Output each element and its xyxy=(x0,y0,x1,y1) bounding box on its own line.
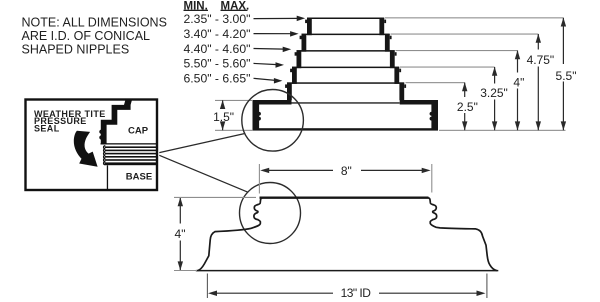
cone step 4 right wall xyxy=(394,67,401,84)
dimension 4.75 inch xyxy=(536,34,541,131)
svg-text:2.35" - 3.00": 2.35" - 3.00" xyxy=(184,12,251,26)
cone step 3 left wall xyxy=(295,50,302,68)
cone step 3 right wall xyxy=(390,50,397,68)
svg-text:ARE I.D. OF CONICAL: ARE I.D. OF CONICAL xyxy=(22,29,151,43)
svg-text:2.5": 2.5" xyxy=(457,100,478,114)
arrow row 3 xyxy=(254,47,292,53)
cone step 4 left wall xyxy=(290,67,297,84)
svg-text:4": 4" xyxy=(513,76,524,90)
svg-text:5.5": 5.5" xyxy=(556,69,577,83)
base left wall xyxy=(253,100,260,131)
dimension 13 inch ID extension right xyxy=(486,274,488,299)
extension line base top left xyxy=(215,100,253,101)
cone step 1 left wall xyxy=(305,18,312,36)
base right shoulder xyxy=(400,100,438,105)
svg-text:3.40" - 4.20": 3.40" - 4.20" xyxy=(184,27,251,41)
note text xyxy=(22,16,167,57)
lower profile bottom line xyxy=(196,270,499,272)
table header MIN xyxy=(184,0,209,12)
dimension 8 inch extension left xyxy=(258,164,260,194)
table header MAX xyxy=(221,0,250,12)
dimension 4 inch bottom extension xyxy=(174,270,197,272)
box curved arrow xyxy=(74,131,98,167)
cone step 5 right wall xyxy=(399,83,406,101)
lower profile left side xyxy=(198,198,263,271)
dimension 4 inch left xyxy=(178,197,183,270)
cone step 2 right wall xyxy=(385,34,392,52)
box seal ribs bottom line xyxy=(105,163,158,165)
base right wall xyxy=(431,100,438,131)
dimension 3.25 inch xyxy=(492,67,497,131)
leader line to upper circle xyxy=(159,134,244,153)
leader line to lower circle xyxy=(159,155,248,192)
lower detail circle xyxy=(240,183,301,244)
cone step 2 left wall xyxy=(300,34,307,52)
arrow row 2 xyxy=(254,31,299,36)
extension line base bottom left xyxy=(215,130,253,131)
detail box xyxy=(26,100,158,191)
arrow row 4 xyxy=(254,62,285,67)
box seal ribs left wavy edge xyxy=(104,146,106,165)
extension line step5 right xyxy=(406,82,465,83)
base left wall seal teeth xyxy=(259,112,261,121)
cone step 3 top line xyxy=(297,50,395,52)
base left shoulder xyxy=(253,100,292,105)
cone step 1 top line xyxy=(307,18,384,20)
base bottom line xyxy=(253,128,439,130)
svg-text:NOTE: ALL DIMENSIONS: NOTE: ALL DIMENSIONS xyxy=(22,16,167,30)
dimension 2.5 inch xyxy=(462,82,467,130)
box label weather tite pressure seal xyxy=(34,109,106,134)
arrow row 5 xyxy=(254,78,283,84)
svg-text:4.75": 4.75" xyxy=(527,53,555,67)
svg-text:6.50" - 6.65": 6.50" - 6.65" xyxy=(184,72,251,86)
svg-text:1.5": 1.5" xyxy=(213,110,234,124)
base top mid line xyxy=(292,102,400,104)
dimension 13 inch ID extension left xyxy=(206,274,208,299)
box cap bottom line xyxy=(101,143,157,144)
dimension 5.5 inch xyxy=(561,18,566,131)
svg-text:4.40" - 4.60": 4.40" - 4.60" xyxy=(184,42,251,56)
dimension 8 inch extension right xyxy=(431,164,433,193)
dimension 8 inch xyxy=(260,168,431,173)
svg-text:SEAL: SEAL xyxy=(34,124,60,134)
extension line step3 right xyxy=(396,50,518,51)
lower profile right side xyxy=(428,198,497,271)
svg-text:3.25": 3.25" xyxy=(480,86,508,100)
extension line step2 right xyxy=(391,34,539,35)
cone step 2 top line xyxy=(302,34,390,36)
dimension 1.5 inch xyxy=(220,100,225,130)
dimension 4 inch right xyxy=(515,50,520,130)
box cap cross-section xyxy=(99,99,132,145)
svg-text:13" ID: 13" ID xyxy=(341,286,372,300)
box seal ribs xyxy=(105,146,157,164)
extension line step4 right xyxy=(400,67,495,68)
svg-text:BASE: BASE xyxy=(126,172,152,183)
svg-text:5.50" - 5.60": 5.50" - 5.60" xyxy=(184,57,251,71)
svg-text:4": 4" xyxy=(175,227,186,241)
arrow row 1 xyxy=(254,16,306,22)
svg-text:SHAPED NIPPLES: SHAPED NIPPLES xyxy=(22,43,130,57)
base right wall seal teeth xyxy=(430,112,432,121)
box base divider line xyxy=(107,165,108,190)
svg-text:8": 8" xyxy=(341,164,352,178)
cone step 5 top line xyxy=(287,82,404,84)
svg-text:CAP: CAP xyxy=(128,126,149,137)
dimension 4 inch top extension xyxy=(174,196,256,198)
lower profile top plateau xyxy=(260,196,429,198)
cone step 4 top line xyxy=(292,67,399,69)
dimension 13 inch ID xyxy=(208,291,486,297)
cone step 5 left wall xyxy=(285,83,292,101)
extension line step1 right xyxy=(385,17,563,18)
extension line base bottom right xyxy=(439,130,566,131)
cone step 1 right wall xyxy=(379,18,386,36)
upper detail circle xyxy=(242,90,304,152)
